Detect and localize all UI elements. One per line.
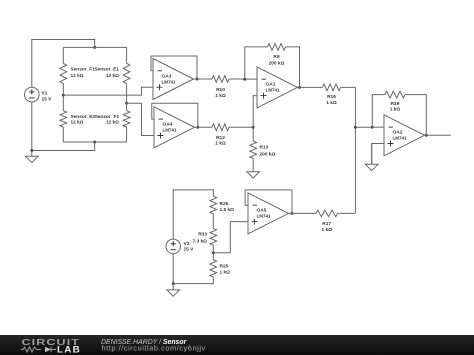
wire right mid to OA4 (127, 103, 154, 135)
wire V1 top to bridge (32, 40, 95, 88)
svg-text:Sensor_F1: Sensor_F1 (71, 67, 96, 73)
wire OA5 output (289, 212, 317, 214)
node OA1 plus net (252, 126, 255, 129)
svg-text:1 kΩ: 1 kΩ (390, 107, 401, 113)
wire R25 bottom (173, 277, 213, 284)
wire to OA2 node (355, 126, 372, 128)
svg-text:V2: V2 (184, 241, 190, 247)
svg-text:R33: R33 (198, 232, 207, 238)
wire R26 to R33 (212, 214, 214, 229)
resistor R25 (210, 260, 217, 277)
label Sensor_E2 (71, 114, 96, 126)
wire right col bottom (126, 127, 128, 142)
svg-text:LM741: LM741 (257, 214, 272, 219)
label R10 (215, 87, 226, 99)
svg-text:V1: V1 (42, 91, 48, 97)
svg-text:12 kΩ: 12 kΩ (106, 120, 119, 126)
wire OA4 output (195, 126, 213, 128)
wire OA2 feedback left (372, 95, 385, 128)
svg-text:R10: R10 (216, 87, 225, 93)
resistor R33 (210, 228, 217, 245)
wire V2 bottom (172, 254, 174, 284)
wire V2 top (173, 190, 213, 239)
svg-text:LM741: LM741 (163, 128, 178, 133)
label R9 (269, 54, 285, 66)
svg-text:200 kΩ: 200 kΩ (269, 60, 285, 66)
node bridge bottom (93, 141, 96, 144)
svg-text:R19: R19 (391, 101, 400, 107)
label R26 (220, 201, 235, 213)
wire node to R25 (212, 253, 214, 260)
wire left col top (62, 47, 64, 63)
svg-text:1 kΩ: 1 kΩ (215, 141, 226, 147)
op-amp OA4 (154, 107, 195, 148)
resistor R13 (250, 141, 257, 159)
voltage source V1 (25, 87, 40, 102)
svg-text:R16: R16 (327, 94, 336, 100)
wire OA5 feedback (245, 190, 292, 214)
wire divider to OA5 (213, 222, 248, 253)
node bridge top (93, 46, 96, 49)
svg-text:Sensor_E1: Sensor_E1 (94, 67, 119, 73)
wire left col mid (62, 83, 64, 95)
svg-text:200 kΩ: 200 kΩ (260, 151, 276, 157)
wire OA2 plus (372, 144, 384, 165)
resistor Sensor_F2 (123, 111, 130, 127)
svg-text:Sensor_F2: Sensor_F2 (95, 114, 120, 120)
svg-text:R26: R26 (220, 201, 229, 207)
label R25 (220, 263, 231, 275)
wire left mid to OA3 (63, 87, 153, 95)
wire R33 to node (212, 245, 214, 253)
wire OA3 output (194, 78, 213, 80)
wire OA2 output (425, 134, 451, 136)
resistor R16 (323, 84, 341, 91)
wire node to R13 (252, 127, 254, 141)
node divider (212, 251, 215, 254)
wire OA1 feedback left (245, 47, 268, 79)
svg-text:7.3 kΩ: 7.3 kΩ (192, 238, 207, 244)
svg-text:1 kΩ: 1 kΩ (321, 227, 332, 233)
svg-text:LAB: LAB (57, 345, 81, 355)
node OA4 output (196, 126, 199, 129)
node OA2 output (425, 134, 428, 137)
node OA5 output (291, 212, 294, 215)
wire V1 bottom (31, 102, 33, 151)
footer bar (0, 335, 474, 355)
resistor R9 (268, 44, 286, 51)
svg-text:LM741: LM741 (162, 79, 177, 84)
svg-text:12 kΩ: 12 kΩ (71, 73, 84, 79)
wire R10 to OA1 (229, 78, 257, 80)
node OA1 output (298, 86, 301, 89)
svg-text:12 kΩ: 12 kΩ (71, 120, 84, 126)
op-amp OA2 (384, 115, 425, 156)
wire OA4 feedback (152, 103, 198, 127)
resistor Sensor_F1 (60, 63, 67, 83)
node bridge left mid (62, 94, 65, 97)
node OA3 output (196, 78, 199, 81)
resistor Sensor_E1 (123, 63, 130, 83)
wire left col mid2 (62, 95, 64, 111)
node bridge right mid (125, 102, 128, 105)
label R17 (321, 221, 332, 233)
svg-text:1 kΩ: 1 kΩ (220, 269, 231, 275)
label V1 (42, 91, 53, 103)
wire right col mid2 (126, 103, 128, 111)
label Sensor_F2 (95, 114, 120, 126)
label Sensor_F1 (71, 67, 96, 79)
svg-text:LM741: LM741 (393, 136, 408, 141)
ground V1 (26, 151, 39, 163)
svg-text:1 kΩ: 1 kΩ (215, 93, 226, 99)
label V2 (184, 241, 195, 253)
voltage source V2 (166, 239, 181, 254)
label R33 (192, 232, 207, 245)
ground V2 (167, 284, 180, 297)
wire OA2 minus in (372, 126, 384, 128)
svg-text:Sensor_E2: Sensor_E2 (71, 114, 96, 120)
ground R13 (247, 159, 260, 179)
wire R16 to vertical (341, 87, 356, 213)
wire OA3 feedback (151, 56, 197, 79)
svg-text:15 V: 15 V (184, 247, 195, 253)
wire OA1 feedback right (286, 47, 300, 88)
svg-text:http://circuitlab.com/cy6njjv: http://circuitlab.com/cy6njjv (102, 344, 206, 353)
svg-text:R13: R13 (260, 145, 269, 151)
CircuitLab logo: diode (45, 347, 51, 353)
CircuitLab logo: resistor zigzag (21, 347, 41, 352)
wire left col bottom (62, 127, 64, 142)
svg-text:R17: R17 (322, 221, 331, 227)
svg-text:1 kΩ: 1 kΩ (326, 100, 337, 106)
resistor R17 (316, 210, 338, 217)
node OA2 minus (371, 126, 374, 129)
label Sensor_E1 (94, 67, 119, 79)
resistor R19 (385, 91, 405, 98)
svg-text:15 V: 15 V (42, 96, 53, 102)
op-amp OA1 (257, 67, 298, 108)
node V2 ground (172, 282, 175, 285)
wire bridge top rail (63, 46, 126, 48)
wire R17 to vertical (338, 212, 356, 214)
op-amp OA3 (153, 59, 194, 100)
wire right col top (126, 47, 128, 63)
wire R12 to node (229, 126, 253, 128)
svg-text:LM741: LM741 (266, 88, 281, 93)
wire OA1 out (298, 86, 323, 88)
node OA1 minus (243, 78, 246, 81)
wire bridge bottom to V1 (32, 142, 95, 151)
svg-text:R25: R25 (220, 263, 229, 269)
resistor R26 (210, 196, 217, 214)
wire OA2 feedback right (405, 95, 426, 136)
wire OA1 plus (253, 96, 257, 128)
wire bridge bottom rail (63, 141, 126, 143)
resistor Sensor_E2 (60, 111, 67, 127)
resistor R10 (212, 76, 229, 83)
node V1 ground (30, 149, 33, 152)
svg-text:12 kΩ: 12 kΩ (106, 73, 119, 79)
svg-text:R12: R12 (216, 135, 225, 141)
label R19 (390, 101, 401, 113)
svg-text:1.5 kΩ: 1.5 kΩ (220, 207, 235, 213)
svg-text:R9: R9 (273, 54, 279, 60)
label R12 (215, 135, 226, 147)
node summing (354, 126, 357, 129)
op-amp OA5 (248, 193, 289, 234)
resistor R12 (212, 124, 229, 131)
label R16 (326, 94, 337, 106)
ground OA2 (365, 144, 378, 171)
label R13 (260, 145, 276, 158)
wire right col mid (126, 83, 128, 103)
